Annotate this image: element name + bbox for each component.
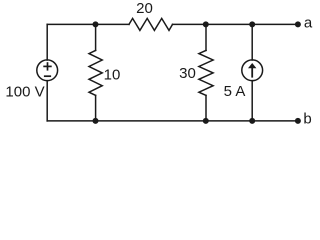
junction dot current source bottom [249,118,255,124]
resistor 20 (horizontal zigzag) [129,18,173,30]
wire 10-ohm branch upper [95,24,97,50]
svg-text:b: b [303,110,311,127]
terminal b dot [295,118,301,124]
svg-text:20: 20 [136,0,153,17]
wire top rail left segment [47,23,129,25]
junction dot 30-ohm bottom [203,118,209,124]
current source 5A circle [242,60,263,81]
wire top rail right segment [173,23,298,25]
resistor 30 (vertical zigzag) [199,50,213,95]
svg-text:a: a [304,15,313,32]
voltage source minus sign [44,75,51,77]
wire 30-ohm branch lower [205,95,207,121]
svg-text:5 A: 5 A [224,83,246,100]
junction dot 30-ohm top [203,21,209,27]
svg-text:30: 30 [179,65,196,82]
voltage source 100V circle [37,60,58,81]
wire left branch upper [46,24,48,60]
junction dot 10-ohm top [93,21,99,27]
terminal a dot [295,21,301,27]
wire bottom rail [47,120,298,122]
junction dot current source top [249,21,255,27]
svg-text:10: 10 [104,67,121,84]
junction dot 10-ohm bottom [93,118,99,124]
svg-text:100 V: 100 V [5,83,44,100]
resistor 10 (vertical zigzag) [89,50,102,95]
wire left branch lower [46,81,48,121]
wire current source branch lower [251,81,253,121]
wire 10-ohm branch lower [95,95,97,121]
current source arrow [248,63,256,78]
wire 30-ohm branch upper [205,24,207,50]
voltage source plus sign [43,62,51,76]
wire current source branch upper [251,24,253,60]
